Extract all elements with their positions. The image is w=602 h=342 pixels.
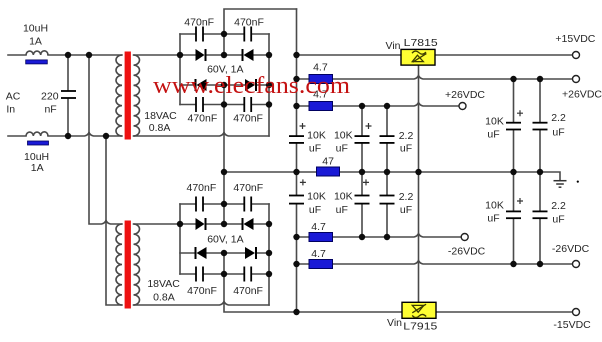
capacitor C6 10000uF plates (x=362 negative) [355, 195, 370, 205]
svg-text:4.7: 4.7 [313, 61, 328, 73]
svg-text:220: 220 [41, 91, 59, 103]
svg-text:10K: 10K [334, 129, 353, 141]
svg-text:0.8A: 0.8A [153, 292, 175, 304]
junction: C9 column / +26V row 1 [537, 76, 543, 82]
wire: right capacitor column x=540 [539, 79, 541, 264]
junction: B2 right rail / diode row 1 [266, 221, 272, 227]
junction: B2 DC- column / diode row 2 [221, 250, 227, 256]
svg-text:2.2: 2.2 [399, 130, 414, 142]
capacitor C5 10000uF plates (x=296.5 negative) [289, 195, 304, 205]
junction: C8 column / +26V row 1 [510, 76, 516, 82]
svg-text:L7815: L7815 [404, 37, 438, 49]
junction: B1 right rail / diode row 1 [266, 52, 272, 58]
junction: main rail / -26V row 3 [293, 234, 299, 240]
junction: ground rail / bridge columns [221, 169, 227, 175]
junction: B1 DC- column / bottom cap row [221, 101, 227, 107]
ground symbol [554, 181, 567, 188]
junction: B2 left rail / AC input [177, 221, 183, 227]
wire: B1 diode row 2 [180, 84, 269, 86]
diode D5 (B2 row1 left, pointing right) [196, 218, 207, 230]
wire: ground rail [224, 172, 560, 181]
junction: B1 right rail / bottom cap row [266, 101, 272, 107]
junction: C11 column / -26V row 4 [537, 261, 543, 267]
junction: AC bottom line / C1 [65, 133, 71, 139]
diode D2 (B1 row1 right, pointing left) [242, 49, 254, 61]
transformer T2 secondary winding [134, 224, 140, 305]
output terminal -26VDC (right) [573, 261, 580, 268]
svg-text:uF: uF [487, 213, 499, 225]
svg-text:uF: uF [552, 214, 564, 226]
svg-text:+26VDC: +26VDC [445, 89, 485, 101]
junction: C6 column / -26V row 3 [359, 234, 365, 240]
svg-text:470nF: 470nF [234, 16, 264, 28]
svg-text:-26VDC: -26VDC [552, 243, 590, 255]
svg-text:uF: uF [336, 143, 348, 155]
diode D8 (B2 row2 right, pointing right) [245, 247, 257, 259]
bridge B1 snubber capacitors 470nF (top row) [195, 27, 252, 42]
svg-text:18VAC: 18VAC [147, 278, 180, 290]
svg-text:uF: uF [400, 143, 412, 155]
wire: B2 diode row 1 [180, 223, 269, 225]
capacitor C1 220nF plates [61, 90, 76, 99]
svg-text:2.2: 2.2 [399, 191, 414, 203]
capacitor C2 10000uF plates (x=296.5 positive) [289, 135, 304, 144]
junction: regulator ground pins / ground rail [415, 169, 421, 175]
junction: C3-C6 column / ground rail [359, 169, 365, 175]
svg-text:10uH: 10uH [23, 23, 48, 35]
capacitor C1 220nF column wire [67, 55, 69, 136]
junction: C9-C11 column / ground rail [537, 169, 543, 175]
capacitor C3 10000uF plates (x=362 positive) [355, 135, 370, 144]
resistor R3 4.7 [309, 233, 333, 242]
wire: DC+ rail into L7815 and +15VDC out [297, 54, 573, 56]
svg-text:0.8A: 0.8A [149, 122, 171, 134]
capacitor C7 2.2uF plates (x=387 negative) [380, 195, 395, 205]
stray ink dot (present in original) [577, 181, 579, 183]
resistor R4 4.7 [309, 260, 333, 269]
svg-text:10K: 10K [334, 191, 353, 203]
svg-text:470nF: 470nF [187, 285, 217, 297]
junction: B1 DC+ column / diode row 1 [221, 52, 227, 58]
svg-text:10K: 10K [307, 129, 326, 141]
wire: B2 bottom capacitor row [180, 273, 269, 275]
transformer T2 core (red) [125, 221, 131, 309]
wire: B2 left rail [179, 204, 181, 274]
junction: C7 column / -26V row 3 [384, 234, 390, 240]
junction: main rail / ground rail [293, 169, 299, 175]
junction: B1 DC- column / diode row 2 [221, 82, 227, 88]
wire: B1 right rail [268, 34, 270, 136]
svg-text:1A: 1A [31, 162, 44, 174]
diode D3 (B1 row2 left, pointing left) [195, 79, 207, 91]
wire: B1 bottom capacitor row [180, 104, 269, 106]
output terminal +26VDC (right) [573, 76, 580, 83]
junction: AC top line / link to T2 primary [86, 52, 92, 58]
plus sign C10 [517, 198, 523, 204]
svg-text:470nF: 470nF [233, 182, 263, 194]
transformer T1 primary winding [116, 55, 122, 136]
svg-text:-15VDC: -15VDC [553, 319, 591, 331]
svg-text:uF: uF [487, 128, 499, 140]
inductor L2 coil 10uH [26, 132, 48, 136]
svg-text:10uH: 10uH [24, 151, 49, 163]
wire: AC input bottom line [8, 133, 122, 137]
svg-text:AC: AC [6, 91, 21, 103]
svg-text:uF: uF [309, 143, 321, 155]
svg-text:uF: uF [400, 204, 412, 216]
wire: B2 right rail [268, 204, 270, 305]
junction: main rail / -26V raw rail [293, 309, 299, 315]
capacitor C9 2.2uF plates (x=540 positive) [533, 122, 548, 131]
wire: T2 secondary bottom to B2 right rail [134, 302, 270, 306]
regulator U1 L7815 body [401, 49, 435, 65]
inductor L1 coil 10uH [26, 51, 48, 55]
svg-text:+15VDC: +15VDC [555, 33, 595, 45]
transformer T1 core (red) [125, 52, 131, 140]
plus sign C8 [517, 110, 523, 116]
svg-text:1A: 1A [29, 36, 42, 48]
wire: +26VDC row 2 (y=106) [297, 103, 460, 107]
junction: C4 column / +26V row 2 [384, 103, 390, 109]
bridge B1 snubber capacitors 470nF (bottom row) [195, 97, 252, 112]
svg-text:47: 47 [322, 156, 334, 168]
diode D6 (B2 row1 right, pointing left) [242, 218, 254, 230]
bridge B2 snubber capacitors 470nF (top row) [195, 197, 252, 212]
junction: C4-C7 column / ground rail [384, 169, 390, 175]
resistor R2 4.7 [309, 102, 333, 111]
bridge B2 snubber capacitors 470nF (bottom row) [195, 267, 252, 282]
svg-text:10K: 10K [307, 191, 326, 203]
wire: B1 diode row 1 [180, 54, 269, 56]
wire: AC input top line [8, 54, 122, 56]
junction: AC bottom line / link to T2 primary return [103, 133, 109, 139]
diode D4 (B1 row2 right, pointing right) [245, 79, 257, 91]
wire: x=106 link from bottom AC line to T2 primary bottom [106, 136, 122, 305]
plus sign C3 [366, 123, 372, 129]
regulator U2 L7915 body [402, 302, 436, 318]
plus sign C5 [300, 179, 306, 185]
junction: main rail / DC+ feed [293, 52, 299, 58]
svg-text:10K: 10K [485, 200, 504, 212]
wire: T2 secondary top to bridge B2 [134, 223, 181, 225]
junction: main rail / -26V row 4 [293, 261, 299, 267]
transformer T2 primary winding [116, 224, 122, 305]
wire: B1 top capacitor row [180, 33, 269, 35]
svg-text:nF: nF [44, 103, 56, 115]
wire: -26VDC row 3 (y=237) [297, 234, 462, 238]
plus sign C6 [363, 179, 369, 185]
svg-text:+26VDC: +26VDC [562, 89, 602, 101]
svg-text:470nF: 470nF [188, 112, 218, 124]
wire: T1 secondary top to bridge B1 [134, 54, 181, 56]
capacitor C4 2.2uF plates (x=387 positive) [380, 135, 395, 144]
svg-text:L7915: L7915 [403, 320, 437, 332]
svg-text:Vin: Vin [387, 317, 402, 329]
wire: B2 top capacitor row [180, 203, 269, 205]
svg-text:18VAC: 18VAC [144, 110, 177, 122]
svg-text:Vin: Vin [386, 40, 401, 52]
svg-text:470nF: 470nF [233, 112, 263, 124]
junction: B1 right rail / diode row 2 [266, 82, 272, 88]
junction: B1 DC+ column / top cap row [221, 31, 227, 37]
diode D1 (B1 row1 left, pointing right) [196, 49, 207, 61]
wire: B2 diode row 2 [180, 252, 269, 254]
junction: B2 right rail / bottom cap row [266, 271, 272, 277]
resistor R5 47 (in ground rail) [317, 167, 340, 176]
wire: L7915 ground pin [418, 172, 420, 302]
junction: main rail / +26V row 1 [293, 76, 299, 82]
junction: B2 DC- column / bottom cap row [221, 271, 227, 277]
transformer T1 secondary winding [134, 55, 140, 136]
svg-text:4.7: 4.7 [311, 248, 326, 260]
wire: capacitor column x=387 [386, 106, 388, 237]
svg-text:uF: uF [336, 204, 348, 216]
junction: C8-C10 column / ground rail [510, 169, 516, 175]
svg-text:4.7: 4.7 [311, 221, 326, 233]
resistor R1 4.7 [309, 75, 333, 84]
wire: L7815 ground pin [418, 65, 420, 172]
svg-text:-26VDC: -26VDC [448, 246, 486, 258]
svg-text:470nF: 470nF [184, 16, 214, 28]
wire: T1 secondary bottom to B1 right rail [134, 133, 270, 137]
junction: main rail / +26V row 2 [293, 103, 299, 109]
junction: B2 DC+ column / top cap row [221, 201, 227, 207]
svg-text:2.2: 2.2 [551, 200, 566, 212]
wire: main vertical rail x=296.5 [296, 9, 298, 312]
inductor L1 core bar [26, 60, 48, 64]
output terminal -26VDC (left stub) [461, 234, 468, 241]
inductor L2 core bar [28, 141, 49, 145]
wire: B2 positive column to ground rail [223, 172, 225, 224]
capacitor C11 2.2uF plates (x=540 negative) [533, 211, 548, 220]
output terminal +26VDC (left stub) [459, 103, 466, 110]
svg-text:470nF: 470nF [233, 285, 263, 297]
wire: capacitor column x=362 [361, 106, 363, 237]
junction: C10 column / -26V row 4 [510, 261, 516, 267]
junction: B1 left rail / AC input [177, 52, 183, 58]
plus sign C2 [300, 123, 306, 129]
diode D7 (B2 row2 left, pointing left) [195, 247, 207, 259]
svg-text:uF: uF [552, 126, 564, 138]
wire: B1 negative column down to ground rail [223, 85, 225, 172]
capacitor C10 10000uF plates (x=513.5 negative) [506, 211, 521, 220]
output terminal +15VDC [573, 52, 580, 59]
wire: x=89 link from top AC line to T2 primary top [89, 55, 122, 224]
wire: B1 left rail [179, 34, 181, 105]
junction: B2 right rail / diode row 2 [266, 250, 272, 256]
wire: -26VDC row 4 (y=264) [297, 261, 573, 265]
svg-text:470nF: 470nF [187, 182, 217, 194]
junction: C3 column / +26V row 2 [359, 103, 365, 109]
svg-text:10K: 10K [485, 115, 504, 127]
wire: B1 positive output link (top) [224, 9, 297, 55]
junction: AC top line / C1 [65, 52, 71, 58]
svg-text:www.elecfans.com: www.elecfans.com [153, 73, 350, 99]
svg-text:2.2: 2.2 [551, 112, 566, 124]
capacitor C8 10000uF plates (x=513.5 positive) [506, 122, 521, 131]
svg-text:60V, 1A: 60V, 1A [207, 234, 243, 246]
junction: B2 DC+ column / diode row 1 [221, 221, 227, 227]
svg-text:uF: uF [309, 204, 321, 216]
output terminal -15VDC [573, 309, 580, 316]
svg-text:In: In [6, 103, 15, 115]
wire: B2 negative column to -26V raw rail and L7915 [224, 253, 573, 312]
wire: right capacitor column x=513.5 [513, 79, 515, 264]
wire: +26VDC row 1 (y=79) [297, 76, 573, 80]
